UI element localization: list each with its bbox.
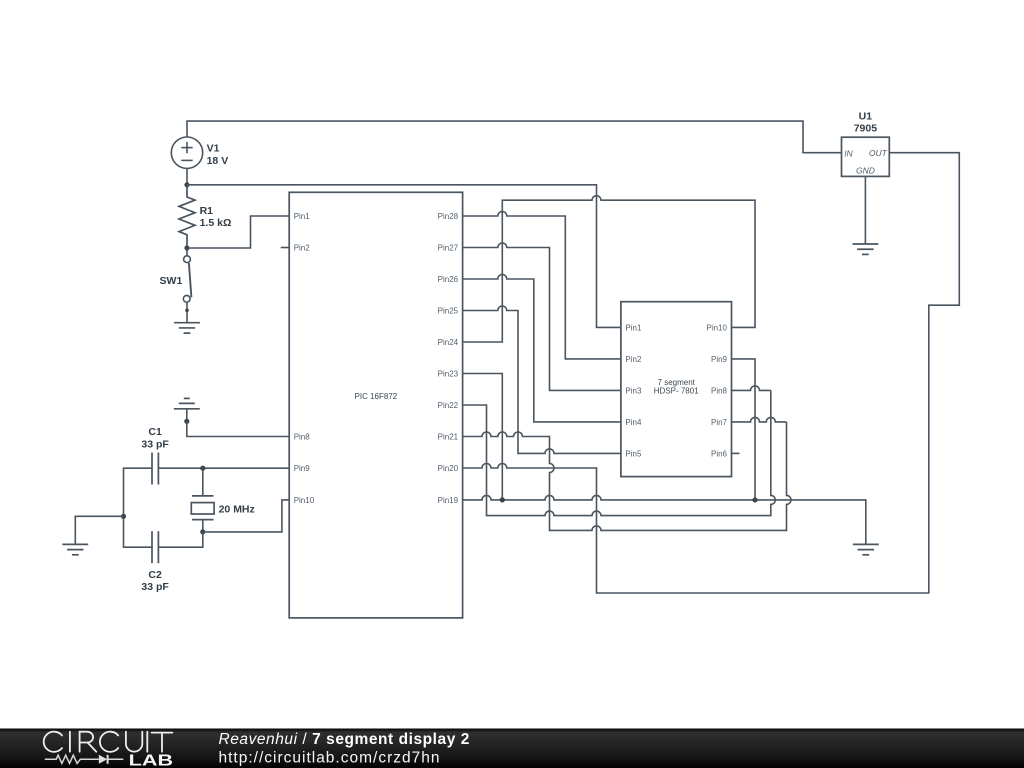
svg-text:7 segment: 7 segment (658, 378, 696, 387)
wire: C1 right plate to PIC Pin9 (158, 467, 289, 469)
pin label Pin22 (PIC right) (438, 401, 459, 410)
svg-text:Pin1: Pin1 (294, 212, 311, 221)
svg-text:http://circuitlab.com/crzd7hn: http://circuitlab.com/crzd7hn (219, 750, 441, 767)
wire: U1 GND stem (864, 176, 866, 244)
svg-text:33 pF: 33 pF (141, 438, 169, 450)
node A junction dot (V1- / R1 / rail to display Pin1) (184, 182, 189, 187)
svg-text:Pin23: Pin23 (438, 370, 459, 379)
pin label Pin10 (display right) (707, 324, 728, 333)
node E junction dot (crystal bottom / C2 / PIC Pin10) (200, 529, 205, 534)
wire: PIC Pin22 to display Pin8 (463, 390, 776, 515)
svg-text:OUT: OUT (869, 148, 888, 158)
wire: node E to PIC Pin10 (203, 500, 289, 532)
capacitor C2 (152, 531, 158, 563)
svg-text:Pin19: Pin19 (438, 496, 459, 505)
wire: PIC Pin21 to display Pin7 (463, 422, 791, 531)
node D junction dot (left loop to ground) (121, 514, 126, 519)
pin label Pin21 (PIC right) (438, 433, 459, 442)
IC PIC 16F872 box (289, 192, 462, 618)
svg-text:Pin5: Pin5 (625, 450, 642, 459)
label R1 value 1.5 k&#937; (200, 217, 232, 229)
svg-text:33 pF: 33 pF (141, 581, 169, 593)
svg-text:Pin26: Pin26 (438, 275, 459, 284)
CircuitLab logo wordmark CIRCUIT (44, 732, 173, 752)
wire: inverted ground stem (186, 409, 188, 422)
label R1 (200, 205, 214, 217)
pin label Pin4 (display left) (625, 418, 642, 427)
svg-text:Pin8: Pin8 (294, 433, 311, 442)
pin label Pin9 (PIC left) (294, 464, 311, 473)
svg-text:Pin2: Pin2 (625, 355, 642, 364)
wire: display Pin9 to ground rail (732, 359, 756, 500)
pin label Pin8 (display right) (711, 387, 728, 396)
svg-text:Pin10: Pin10 (294, 496, 315, 505)
pin label Pin2 (display left) (625, 355, 642, 364)
svg-text:Pin25: Pin25 (438, 307, 459, 316)
wire: PIC Pin24 to display Pin10 (463, 196, 755, 342)
wire: node B to PIC Pin1 (187, 216, 289, 248)
pin label Pin20 (PIC right) (438, 464, 459, 473)
pin label Pin23 (PIC right) (438, 370, 459, 379)
svg-text:C1: C1 (148, 426, 162, 438)
pin stub Pin2 (PIC, unconnected) (281, 247, 290, 249)
label U1 value 7905 (854, 122, 878, 134)
pin label IN (U1) (844, 148, 853, 158)
ground (bottom right) (853, 544, 879, 554)
IC 7-segment display HDSP-7801 box (621, 302, 732, 477)
label PIC 16F872 (355, 392, 398, 401)
wire: PIC Pin27 to display Pin3 (463, 243, 621, 390)
wire: display Pin8 row to riser (732, 386, 771, 391)
wire: C1 left plate to left loop and C2 left plate (124, 468, 153, 547)
label C1 (148, 426, 162, 438)
CircuitLab logo waveform: resistor and diode (45, 755, 124, 764)
footer bar (0, 729, 1024, 768)
svg-text:Pin2: Pin2 (294, 244, 311, 253)
svg-text:Pin24: Pin24 (438, 338, 459, 347)
ground (below SW1) (174, 323, 200, 333)
label HDSP-7801 (654, 387, 699, 396)
pin label Pin7 (display right) (711, 418, 728, 427)
resistor R1 (179, 185, 195, 248)
pin label Pin1 (PIC left) (294, 212, 311, 221)
junction dot Pin23 / ground rail (500, 497, 505, 502)
svg-text:HDSP- 7801: HDSP- 7801 (654, 387, 699, 396)
pin label Pin25 (PIC right) (438, 307, 459, 316)
svg-text:IN: IN (844, 148, 853, 158)
svg-text:GND: GND (856, 165, 875, 175)
junction dot display Pin9 / ground rail (752, 497, 757, 502)
switch SW1 terminal dot (185, 309, 189, 313)
svg-text:Pin22: Pin22 (438, 401, 459, 410)
label SW1 (160, 275, 183, 287)
svg-text:Pin20: Pin20 (438, 464, 459, 473)
svg-text:Pin4: Pin4 (625, 418, 642, 427)
label U1 (859, 111, 873, 123)
wire: PIC Pin23 down to ground rail (463, 374, 503, 500)
svg-text:LAB: LAB (129, 753, 173, 768)
inverted ground (above PIC Pin8) (174, 398, 200, 408)
pin label Pin28 (PIC right) (438, 212, 459, 221)
svg-text:Pin8: Pin8 (711, 387, 728, 396)
pin label Pin27 (PIC right) (438, 244, 459, 253)
svg-text:Pin1: Pin1 (625, 324, 642, 333)
pin label OUT (U1) (869, 148, 888, 158)
label C2 (148, 569, 162, 581)
pin label Pin1 (display left) (625, 324, 642, 333)
ground (below U1) (853, 244, 879, 254)
pin label Pin19 (PIC right) (438, 496, 459, 505)
label V1 value 18 V (207, 155, 229, 167)
wire: PIC Pin19 ground rail (463, 495, 866, 544)
node B junction dot (R1 / SW1 / PIC Pin1) (184, 245, 189, 250)
svg-text:18 V: 18 V (207, 155, 229, 167)
pin label Pin26 (PIC right) (438, 275, 459, 284)
svg-text:R1: R1 (200, 205, 214, 217)
svg-text:Pin21: Pin21 (438, 433, 459, 442)
junction dot on ground stem (184, 419, 189, 424)
svg-text:Pin3: Pin3 (625, 387, 642, 396)
pin label Pin9 (display right) (711, 355, 728, 364)
svg-text:U1: U1 (859, 111, 873, 123)
footer title text (219, 731, 470, 748)
svg-text:Pin27: Pin27 (438, 244, 459, 253)
label C1 value 33 pF (141, 438, 169, 450)
footer url text (219, 750, 441, 767)
svg-text:Pin10: Pin10 (707, 324, 728, 333)
svg-text:7905: 7905 (854, 122, 878, 134)
pin label Pin24 (PIC right) (438, 338, 459, 347)
svg-text:Pin6: Pin6 (711, 450, 728, 459)
pin label GND (U1) (856, 165, 875, 175)
pin label Pin8 (PIC left) (294, 433, 311, 442)
pin stub Pin6 (display, unconnected) (732, 452, 740, 454)
pin label Pin5 (display left) (625, 450, 642, 459)
label 7 segment (658, 378, 696, 387)
wire: node E down to C2 (158, 532, 202, 547)
svg-text:Pin9: Pin9 (294, 464, 311, 473)
svg-text:20 MHz: 20 MHz (219, 504, 255, 516)
wire: PIC Pin26 to display Pin4 (463, 275, 621, 422)
svg-text:1.5 kΩ: 1.5 kΩ (200, 217, 232, 229)
wire: PIC Pin20 to U1 OUT (right rail) (463, 153, 960, 593)
wire: display Pin7 row to riser (732, 417, 787, 422)
label C2 value 33 pF (141, 581, 169, 593)
voltage regulator U1 7905 box (842, 137, 890, 176)
wire: node A to display Pin1 (187, 185, 621, 328)
wire: V1 to node A (186, 168, 188, 184)
voltage source V1 (171, 137, 202, 168)
svg-text:Pin9: Pin9 (711, 355, 728, 364)
node C junction dot (C1 / crystal top / PIC Pin9) (200, 466, 205, 471)
svg-text:Pin7: Pin7 (711, 418, 728, 427)
wire: ground node to PIC Pin8 (187, 421, 289, 436)
pin label Pin10 (PIC left) (294, 496, 315, 505)
wire: PIC Pin28 to display Pin2 (463, 212, 621, 359)
svg-text:Reavenhui / 7 segment display: Reavenhui / 7 segment display 2 (219, 731, 470, 748)
switch SW1 (183, 248, 191, 323)
pin label Pin2 (PIC left) (294, 244, 311, 253)
wire: PIC Pin25 to display Pin5 (463, 306, 621, 453)
crystal X1 20 MHz (191, 468, 214, 532)
label V1 (207, 143, 220, 155)
label crystal value 20 MHz (219, 504, 255, 516)
svg-text:SW1: SW1 (160, 275, 183, 287)
pin label Pin3 (display left) (625, 387, 642, 396)
svg-text:Pin28: Pin28 (438, 212, 459, 221)
wire: node D to ground (75, 516, 123, 544)
wire: V1 positive terminal to U1 IN (top rail) (187, 121, 842, 153)
svg-text:V1: V1 (207, 143, 220, 155)
svg-text:PIC 16F872: PIC 16F872 (355, 392, 398, 401)
CircuitLab logo wordmark LAB (129, 753, 173, 768)
svg-text:C2: C2 (148, 569, 162, 581)
ground (left of C2) (62, 544, 88, 554)
pin label Pin6 (display right) (711, 450, 728, 459)
capacitor C1 (152, 453, 158, 485)
